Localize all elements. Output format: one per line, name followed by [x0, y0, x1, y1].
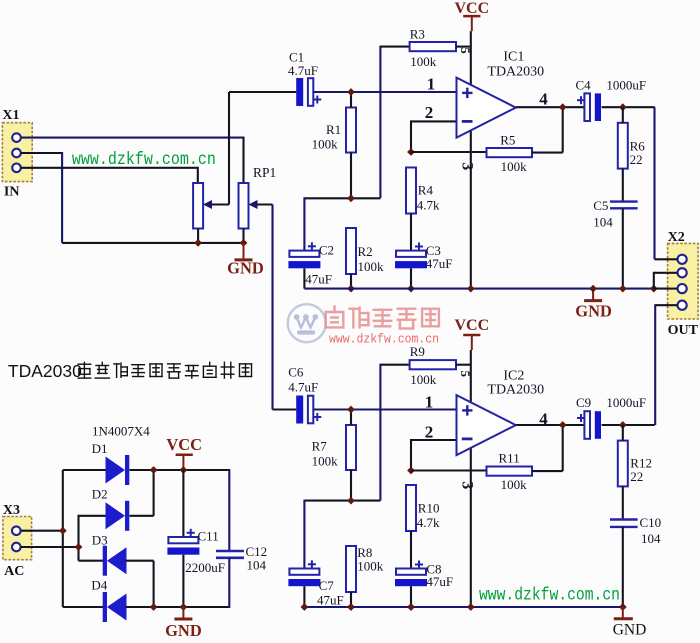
- svg-text:www.dzkfw.com.cn: www.dzkfw.com.cn: [479, 586, 620, 606]
- svg-text:R11: R11: [499, 451, 520, 466]
- svg-text:2: 2: [425, 423, 434, 442]
- svg-text:47uF: 47uF: [426, 256, 453, 271]
- svg-text:100k: 100k: [312, 137, 339, 152]
- svg-text:1: 1: [425, 393, 434, 412]
- svg-text:47uF: 47uF: [426, 574, 453, 589]
- svg-text:100k: 100k: [357, 558, 384, 573]
- svg-text:D2: D2: [92, 487, 108, 502]
- svg-text:4: 4: [539, 90, 548, 109]
- svg-text:IC1: IC1: [503, 50, 524, 65]
- svg-text:104: 104: [641, 531, 661, 546]
- svg-text:X1: X1: [2, 108, 19, 123]
- svg-text:OUT: OUT: [668, 323, 699, 338]
- svg-text:5: 5: [458, 371, 473, 378]
- svg-text:4.7uF: 4.7uF: [288, 380, 318, 395]
- svg-text:3: 3: [459, 162, 476, 170]
- svg-text:100k: 100k: [312, 454, 339, 469]
- svg-text:100k: 100k: [410, 372, 437, 387]
- svg-text:R1: R1: [326, 122, 341, 137]
- svg-text:5: 5: [458, 47, 473, 54]
- svg-text:R4: R4: [418, 182, 434, 197]
- svg-text:VCC: VCC: [166, 435, 202, 454]
- svg-text:1: 1: [427, 75, 436, 94]
- svg-text:R5: R5: [500, 133, 515, 148]
- svg-text:C4: C4: [576, 78, 592, 93]
- svg-text:C7: C7: [319, 578, 335, 593]
- svg-text:R7: R7: [312, 438, 328, 453]
- svg-text:VCC: VCC: [454, 0, 489, 17]
- svg-text:R2: R2: [358, 244, 373, 259]
- svg-text:D1: D1: [92, 441, 108, 456]
- svg-text:IC2: IC2: [503, 369, 524, 384]
- svg-text:GND: GND: [165, 621, 202, 638]
- svg-text:104: 104: [593, 215, 613, 230]
- svg-text:R3: R3: [410, 27, 425, 42]
- svg-text:22: 22: [630, 152, 643, 167]
- svg-text:2: 2: [425, 103, 434, 122]
- svg-text:X2: X2: [668, 230, 685, 245]
- svg-text:1000uF: 1000uF: [606, 395, 646, 410]
- svg-text:47uF: 47uF: [317, 593, 344, 608]
- svg-text:C11: C11: [198, 529, 219, 544]
- svg-text:22: 22: [630, 469, 643, 484]
- svg-text:100k: 100k: [501, 159, 527, 174]
- svg-text:TDA2030: TDA2030: [487, 382, 544, 397]
- svg-text:GND: GND: [227, 259, 264, 278]
- svg-text:AC: AC: [4, 564, 24, 579]
- svg-text:104: 104: [247, 558, 267, 573]
- svg-text:1000uF: 1000uF: [606, 78, 646, 93]
- svg-text:4: 4: [539, 410, 548, 429]
- svg-text:TDA2030: TDA2030: [487, 64, 544, 79]
- svg-text:100k: 100k: [501, 477, 527, 492]
- svg-text:VCC: VCC: [454, 317, 489, 334]
- svg-text:GND: GND: [613, 622, 647, 639]
- svg-text:C5: C5: [593, 198, 608, 213]
- svg-text:1N4007X4: 1N4007X4: [92, 423, 150, 438]
- svg-text:TDA2030: TDA2030: [8, 361, 82, 381]
- svg-text:4.7k: 4.7k: [417, 197, 440, 212]
- svg-text:R9: R9: [410, 344, 425, 359]
- svg-text:D3: D3: [92, 532, 108, 547]
- svg-text:D4: D4: [91, 577, 107, 592]
- svg-text:IN: IN: [4, 185, 20, 200]
- svg-text:100k: 100k: [358, 259, 385, 274]
- svg-text:RP1: RP1: [253, 165, 276, 180]
- svg-text:47uF: 47uF: [305, 272, 332, 287]
- svg-text:4.7k: 4.7k: [417, 515, 440, 530]
- svg-text:GND: GND: [575, 302, 612, 321]
- svg-text:R10: R10: [418, 501, 440, 516]
- svg-text:C2: C2: [319, 243, 334, 258]
- svg-text:X3: X3: [3, 503, 20, 518]
- svg-text:3: 3: [459, 481, 476, 489]
- svg-text:C6: C6: [288, 365, 304, 380]
- svg-text:C10: C10: [640, 515, 662, 530]
- svg-text:C9: C9: [576, 395, 591, 410]
- svg-text:100k: 100k: [410, 54, 437, 69]
- svg-text:2200uF: 2200uF: [185, 560, 225, 575]
- svg-text:4.7uF: 4.7uF: [288, 63, 318, 78]
